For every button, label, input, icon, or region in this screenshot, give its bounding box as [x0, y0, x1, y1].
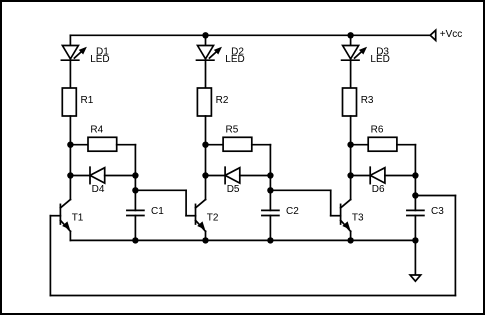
- svg-text:R1: R1: [81, 95, 94, 106]
- junction collector node / D5: [202, 172, 208, 178]
- svg-text:C3: C3: [431, 206, 444, 217]
- svg-text:LED: LED: [90, 54, 109, 65]
- wire to D5 cathode: [206, 175, 226, 177]
- label D4: [92, 184, 105, 195]
- label R1: [81, 95, 94, 106]
- wire D6 anode to node: [385, 175, 416, 177]
- wire C1 to emitter rail: [134, 216, 136, 241]
- svg-text:R3: R3: [361, 95, 374, 106]
- label D6: [372, 184, 385, 195]
- wire emitter ground rail: [70, 239, 415, 241]
- junction collector node / R4: [67, 142, 73, 148]
- wire D5 anode to node: [240, 175, 271, 177]
- wire to R5: [206, 144, 224, 146]
- junction collector node / D6: [347, 172, 353, 178]
- label R3: [361, 95, 374, 106]
- junction node / D4 anode: [132, 172, 138, 178]
- junction node / D5 anode: [267, 172, 273, 178]
- svg-text:LED: LED: [370, 54, 389, 65]
- label T2: [207, 213, 219, 224]
- transistor T1: [60, 200, 70, 232]
- junction C2 / emitter rail: [267, 237, 273, 243]
- resistor R6: [368, 137, 397, 151]
- wire +Vcc top rail: [70, 34, 430, 36]
- wire to D4 cathode: [70, 175, 90, 177]
- wire rail to D2 anode: [205, 35, 207, 45]
- resistor R3: [343, 88, 357, 116]
- junction collector node / R5: [202, 142, 208, 148]
- junction C3 / emitter rail: [412, 237, 418, 243]
- capacitor C1: [127, 210, 144, 215]
- label R5: [226, 124, 239, 135]
- wire D3 cathode to R3: [350, 60, 352, 88]
- svg-text:D5: D5: [227, 184, 240, 195]
- svg-text:R4: R4: [90, 124, 103, 135]
- svg-text:R2: R2: [216, 95, 229, 106]
- resistor R2: [197, 88, 211, 116]
- wire R4 to node: [117, 144, 136, 146]
- capacitor C2: [262, 210, 279, 215]
- wire T1 emitter to rail: [69, 231, 71, 240]
- wire node3 feedback to T1 base: [50, 196, 455, 296]
- LED D2: [197, 46, 221, 61]
- ground: [410, 275, 421, 281]
- wire R5 to node: [252, 144, 271, 146]
- junction top rail / D3 branch: [347, 32, 353, 38]
- LED D1: [61, 46, 85, 61]
- wire C2 to emitter rail: [269, 216, 271, 241]
- wire node vertical to C2: [269, 145, 271, 211]
- Vcc terminal: [430, 30, 436, 40]
- diode D4: [90, 167, 105, 183]
- wire R2 to T2 collector node: [205, 116, 207, 200]
- wire node vertical to C3: [414, 145, 416, 211]
- wire rail to D3 anode: [350, 35, 352, 45]
- junction collector node / D4: [67, 172, 73, 178]
- label +Vcc: [440, 29, 463, 40]
- svg-text:+Vcc: +Vcc: [440, 29, 463, 40]
- junction T3 emitter / rail: [347, 237, 353, 243]
- wire T2 emitter to rail: [205, 231, 207, 240]
- wire to R6: [351, 144, 369, 146]
- junction T2 emitter / rail: [202, 237, 208, 243]
- svg-text:T3: T3: [352, 213, 364, 224]
- wire rail to ground: [414, 240, 416, 275]
- transistor T3: [341, 200, 351, 232]
- label T3: [352, 213, 364, 224]
- junction top rail / D2 branch: [202, 32, 208, 38]
- wire node2 to T3 base: [270, 190, 340, 215]
- wire to R4: [70, 144, 88, 146]
- label D5: [227, 184, 240, 195]
- svg-text:T2: T2: [207, 213, 219, 224]
- wire D2 cathode to R2: [205, 60, 207, 88]
- wire to D6 cathode: [351, 175, 371, 177]
- junction node / base tap: [412, 192, 418, 198]
- svg-text:C1: C1: [151, 206, 164, 217]
- wire T3 emitter to rail: [350, 231, 352, 240]
- transistor T2: [196, 200, 206, 232]
- wire D1 cathode to R1: [69, 60, 71, 88]
- label C3: [431, 206, 444, 217]
- label D3 LED: [370, 46, 389, 65]
- label T1: [72, 213, 84, 224]
- LED D3: [342, 46, 366, 61]
- wire rail to D1 anode: [69, 35, 71, 45]
- label C1: [151, 206, 164, 217]
- label D2 LED: [225, 46, 244, 65]
- label R6: [371, 124, 384, 135]
- diode D6: [370, 167, 385, 183]
- capacitor C3: [407, 210, 424, 215]
- diode D5: [225, 167, 240, 183]
- junction node / base tap: [132, 187, 138, 193]
- wire R6 to node: [397, 144, 416, 146]
- label R4: [90, 124, 103, 135]
- junction node / D6 anode: [412, 172, 418, 178]
- svg-text:C2: C2: [286, 206, 299, 217]
- wire node vertical to C1: [134, 145, 136, 211]
- junction C1 / emitter rail: [132, 237, 138, 243]
- junction collector node / R6: [347, 142, 353, 148]
- resistor R4: [88, 137, 117, 151]
- resistor R1: [62, 88, 76, 116]
- wire D4 anode to node: [105, 175, 136, 177]
- svg-text:D6: D6: [372, 184, 385, 195]
- label C2: [286, 206, 299, 217]
- label D1 LED: [90, 46, 109, 65]
- wire node1 to T2 base: [135, 190, 195, 215]
- svg-text:R6: R6: [371, 124, 384, 135]
- svg-text:D4: D4: [92, 184, 105, 195]
- wire C3 to emitter rail: [414, 216, 416, 241]
- junction node / base tap: [267, 187, 273, 193]
- wire R3 to T3 collector node: [350, 116, 352, 200]
- svg-text:R5: R5: [226, 124, 239, 135]
- resistor R5: [223, 137, 252, 151]
- svg-text:T1: T1: [72, 213, 84, 224]
- wire R1 to T1 collector node: [69, 116, 71, 200]
- label R2: [216, 95, 229, 106]
- svg-text:LED: LED: [225, 54, 244, 65]
